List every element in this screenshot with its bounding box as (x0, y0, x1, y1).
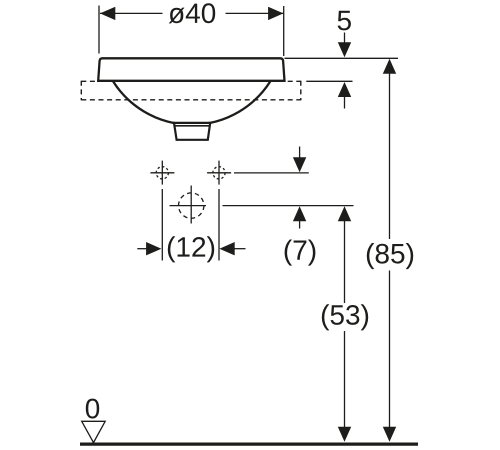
label (85) (367, 243, 413, 269)
label ø40 (169, 3, 216, 23)
extension line right (283, 6, 285, 56)
arrow right (268, 7, 283, 20)
label (7) (285, 240, 316, 266)
dimension (12) (137, 189, 245, 261)
dimension line (100, 12, 163, 14)
drain flange line (175, 125, 210, 127)
countertop dashed outline (81, 81, 300, 101)
label (53) (322, 304, 368, 330)
dimension 5 (338, 33, 351, 109)
extension lines (161, 189, 163, 261)
reference line rim top (285, 57, 399, 59)
extension line left (98, 6, 100, 54)
dimension (85) (383, 59, 396, 442)
basin rim (98, 58, 284, 81)
datum triangle (82, 421, 106, 442)
reference line drain pipe (223, 205, 354, 207)
dimension (53) (338, 206, 351, 442)
reference line tap holes (234, 172, 309, 174)
basin bowl arc (113, 82, 270, 125)
arrows (137, 248, 147, 250)
dimension ø40 (99, 6, 284, 57)
drain outlet (174, 123, 210, 140)
tap hole crosshair right (207, 161, 231, 185)
dimension (7) (293, 147, 306, 229)
reference line countertop level (306, 80, 352, 82)
floor line (80, 443, 418, 446)
label 0 datum (86, 399, 99, 419)
label 5 (338, 11, 351, 31)
arrow left (100, 7, 115, 20)
label (12) (168, 236, 214, 262)
drain pipe dashed circle (170, 186, 207, 224)
tap hole crosshair left (150, 161, 174, 185)
